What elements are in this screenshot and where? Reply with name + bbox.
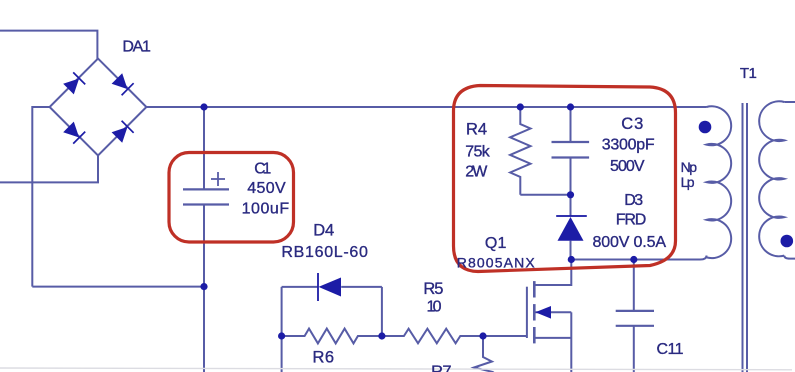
svg-text:Np: Np [681, 159, 698, 175]
wire AC input top [0, 31, 97, 59]
junction R4 top [517, 103, 524, 110]
wire top rail [146, 106, 706, 108]
svg-text:C1: C1 [254, 161, 271, 178]
diode D4 [317, 273, 341, 301]
svg-text:R7: R7 [431, 363, 452, 372]
bridge diode bottom-left [62, 121, 85, 144]
wire secondary bottom [784, 256, 795, 259]
red highlight oval C1 [169, 153, 294, 243]
transistor Q1 body [527, 281, 534, 343]
junction drain node [568, 256, 575, 263]
wire D4 left vertical [281, 287, 283, 372]
svg-text:R4: R4 [466, 121, 487, 139]
svg-text:FRD: FRD [616, 212, 647, 229]
wire Q1 body arrow line [535, 311, 571, 313]
wire Q1 drain [534, 260, 571, 286]
capacitor C3 plates [552, 141, 590, 143]
capacitor C1 plates and plus [183, 172, 229, 205]
svg-text:Lp: Lp [681, 174, 695, 190]
transformer T1 secondary winding [759, 101, 784, 256]
svg-text:D4: D4 [313, 221, 334, 239]
svg-text:2W: 2W [465, 163, 488, 180]
svg-text:500V: 500V [610, 158, 645, 175]
junction C11 node [630, 256, 637, 263]
diode D3 wires [570, 195, 572, 216]
resistor R5 [382, 329, 483, 344]
transformer secondary phase dot [781, 235, 794, 248]
bridge diode top-left [62, 72, 85, 95]
resistor R7 [474, 336, 492, 372]
svg-text:Q1: Q1 [485, 235, 507, 252]
svg-text:T1: T1 [740, 65, 757, 82]
svg-text:100uF: 100uF [242, 201, 290, 218]
svg-text:10: 10 [427, 299, 442, 316]
resistor R6 [282, 329, 382, 344]
wire secondary top [784, 101, 795, 103]
transformer T1 core [742, 103, 744, 372]
svg-text:C11: C11 [657, 341, 684, 358]
wire Q1 source [534, 337, 571, 339]
capacitor C1 wires [203, 107, 205, 189]
svg-text:75k: 75k [465, 144, 491, 161]
junction gate node [479, 332, 486, 339]
wire C11 node to primary [634, 256, 707, 260]
capacitor C11 wires [633, 260, 635, 311]
transformer T1 primary winding [707, 106, 732, 258]
junction R6 left [278, 332, 285, 339]
svg-text:RB160L-60: RB160L-60 [281, 244, 368, 261]
svg-text:R5: R5 [423, 280, 443, 298]
junction snubber bottom [567, 191, 574, 198]
transistor Q1 body arrow [535, 306, 551, 319]
wire drain node to C11 node [571, 259, 634, 261]
svg-text:450V: 450V [247, 180, 286, 197]
svg-text:R6: R6 [313, 349, 335, 367]
bridge diode top-right [111, 72, 134, 95]
wire D4 top branch [282, 286, 319, 288]
svg-text:DA1: DA1 [122, 39, 151, 56]
wire D4 right vertical [381, 287, 383, 336]
junction C1 bottom [200, 283, 207, 290]
bridge DA1 diamond [50, 59, 147, 156]
svg-text:R8005ANX: R8005ANX [457, 255, 536, 271]
resistor R4 [510, 107, 530, 195]
junction C3 top [567, 103, 574, 110]
wire AC input bottom [0, 155, 98, 182]
svg-text:C3: C3 [621, 115, 643, 133]
junction C1 top [200, 103, 207, 110]
capacitor C3 wires [570, 107, 572, 142]
wire R4 to C3 bottom [520, 194, 570, 196]
bridge diode bottom-right [111, 120, 134, 143]
diode D3 [556, 215, 587, 241]
faint bottom edge line [0, 368, 792, 370]
wire DC minus from left vertex [32, 107, 49, 287]
capacitor C11 plates [616, 310, 654, 312]
junction R6 right [378, 332, 385, 339]
wire bottom rail [32, 286, 204, 288]
svg-text:3300pF: 3300pF [602, 137, 655, 154]
transformer primary phase dot [699, 121, 712, 134]
svg-text:D3: D3 [624, 192, 643, 209]
svg-text:800V 0.5A: 800V 0.5A [593, 234, 667, 251]
red highlight oval snubber [454, 86, 676, 272]
wire gate [483, 335, 527, 337]
